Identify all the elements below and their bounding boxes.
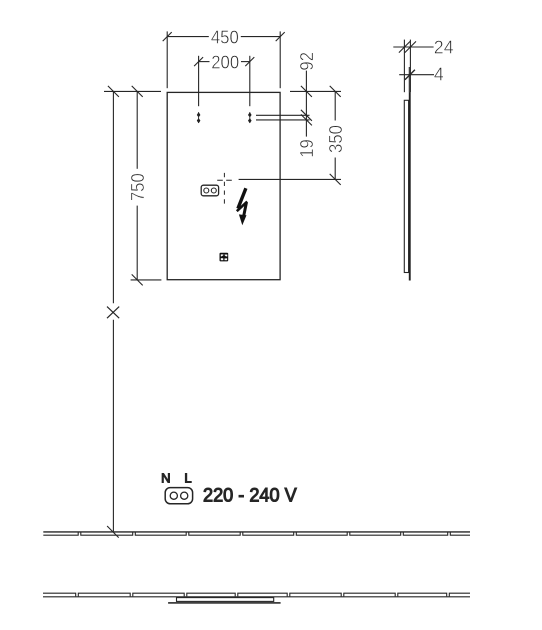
- dim 750 ticks: [132, 86, 143, 97]
- svg-text:24: 24: [434, 37, 454, 57]
- side view carrier profile: [404, 100, 408, 272]
- mirror outline front view: [167, 92, 280, 279]
- upper floor plank segments: [43, 532, 470, 535]
- dim 24 line: [393, 46, 433, 48]
- svg-text:450: 450: [211, 27, 239, 48]
- dim 92-19 line: [305, 71, 307, 137]
- lower wall line continuous: [43, 596, 470, 598]
- wall height line lower part: [112, 320, 114, 532]
- svg-text:92: 92: [296, 52, 317, 71]
- top-left extension line: [104, 90, 161, 92]
- floor crossing tick: [107, 526, 119, 538]
- top-right extension line: [290, 90, 341, 92]
- svg-text:19: 19: [296, 139, 317, 158]
- side view extension lines: [403, 40, 405, 93]
- dim 750 line: [136, 91, 138, 168]
- X symbol: [107, 307, 119, 319]
- mounting point left: [197, 112, 201, 123]
- dim 19 double ticks: [301, 110, 312, 121]
- sensor icon: [220, 253, 229, 262]
- svg-text:220 - 240 V: 220 - 240 V: [203, 484, 297, 506]
- dim 450 extension lines: [166, 31, 168, 88]
- svg-text:200: 200: [211, 52, 239, 73]
- dim 4 line: [399, 74, 434, 76]
- dim 24 ticks: [399, 41, 410, 52]
- side view mirror glass: [409, 92, 411, 280]
- crosshair center mark dashed: [223, 173, 225, 204]
- upper floor line continuous: [43, 531, 470, 533]
- svg-text:L: L: [184, 470, 191, 485]
- svg-text:4: 4: [434, 64, 444, 84]
- crosshair leader line: [239, 178, 341, 180]
- dim 450 line: [167, 36, 209, 38]
- junction box icon: [201, 185, 218, 196]
- bottom-left extension line: [131, 279, 162, 281]
- svg-text:N: N: [161, 470, 170, 485]
- dim 200 line: [199, 61, 210, 63]
- svg-text:350: 350: [325, 125, 346, 153]
- svg-text:750: 750: [127, 173, 148, 201]
- dim 200 ticks: [194, 57, 203, 66]
- wall height line upper part: [112, 91, 114, 303]
- dim 350 line: [334, 91, 336, 120]
- wall line top tick: [108, 86, 119, 97]
- wire lines from right mounting point: [256, 114, 310, 116]
- dim 4 tick: [405, 70, 415, 80]
- lightning bolt symbol: [237, 188, 247, 225]
- dim 200 extension lines: [198, 56, 200, 106]
- plan view mirror glass: [168, 602, 281, 604]
- dim 350 ticks: [330, 86, 341, 97]
- plan view carrier: [177, 598, 274, 602]
- dim 450 ticks: [163, 32, 172, 41]
- dim 92 tick: [301, 86, 312, 97]
- lower wall tile segments: [43, 593, 470, 596]
- mounting point right: [248, 112, 252, 123]
- mains socket icon: [165, 488, 192, 504]
